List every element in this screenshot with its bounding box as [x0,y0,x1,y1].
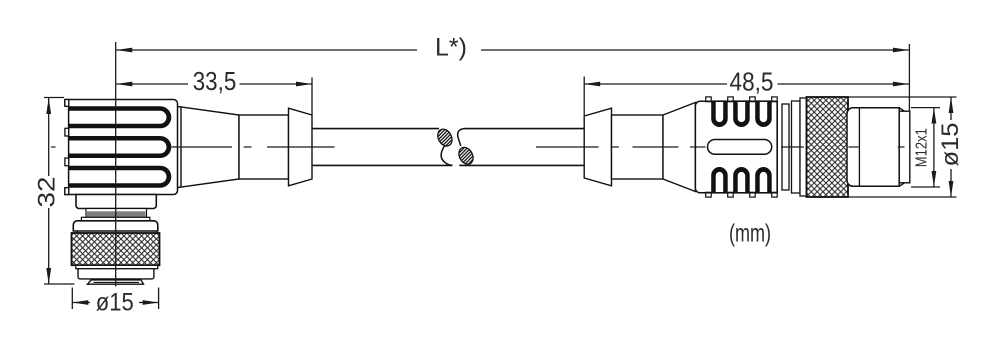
svg-text:M12x1: M12x1 [914,128,931,167]
right body tab bottom 1 [706,192,712,197]
thread relief line [858,108,860,187]
cable right segment [459,129,584,166]
dimension L*) [116,49,909,51]
left body grip bar 2 [69,136,172,158]
left connector body fill [65,100,178,195]
right ring A [782,104,789,190]
dimension 32 [44,98,75,285]
dimension M12x1 [911,108,940,188]
cable right break curve [458,129,464,146]
right ring C [800,98,807,196]
left body rib tab 2 [65,128,69,136]
left connector body outline [65,100,178,195]
svg-text:(mm): (mm) [729,220,771,248]
svg-text:L*): L*) [435,34,467,62]
svg-text:ø15: ø15 [937,123,964,167]
right taper to body [663,103,695,192]
right gland cylinder [612,115,664,179]
thread end chamfer [899,108,904,187]
svg-text:32: 32 [34,177,61,208]
svg-text:48,5: 48,5 [730,67,774,97]
right body grip loop bottom 2 [733,167,750,194]
right body tab bottom 4 [772,192,778,197]
right body grip loop bottom 1 [711,167,728,194]
right body grip loop top 1 [711,100,728,127]
cable left break curve [441,146,452,166]
cable left break blob [438,129,452,146]
left strain-relief bell [289,108,313,186]
left body rib tab 3 [65,158,69,166]
right body grip loop top 3 [755,100,772,127]
dimension 33,5 [116,78,312,116]
cable left segment [312,129,453,166]
right body tab bottom 3 [750,192,756,197]
left step C [81,217,149,221]
left body grip bar 3 [69,166,172,188]
left cone to cable [181,107,239,187]
left nut lower band [76,265,158,268]
cable right break blob [459,147,473,164]
left lower sleeve [78,269,154,279]
left mating face lip [88,280,144,284]
right body tab top 3 [750,97,756,102]
right body tab top 1 [706,97,712,102]
left coupling flange [73,221,158,231]
right body grip loop top 2 [733,100,750,127]
right thread M12 [847,108,899,187]
left body grip bar 1 [69,106,172,128]
dimension ø15 left [72,288,158,310]
right ring B [792,101,801,193]
left flange-to-knurl edges [77,231,156,233]
right strain-relief bell [584,108,611,186]
left body rib tab 1 [65,100,69,107]
right body grip loop bottom 3 [755,167,772,194]
horizontal center line [51,146,905,148]
svg-text:33,5: 33,5 [193,66,237,96]
right body tab bottom 2 [728,192,734,197]
left step A [76,195,156,209]
left body rib tab 4 [65,188,69,195]
right connector body [695,101,777,193]
vertical center line [115,42,117,287]
dimension ø15 right [845,97,957,197]
dimension 48,5 [584,44,909,116]
right body tab top 4 [772,97,778,102]
left gasket ring (gray) [86,209,147,218]
right body tab top 2 [728,97,734,102]
right knurled nut [807,97,849,197]
left knurled nut [72,233,160,265]
right body slot [708,140,772,155]
thread end face [899,111,910,183]
svg-text:ø15: ø15 [96,289,134,317]
left gland cylinder [239,115,289,179]
